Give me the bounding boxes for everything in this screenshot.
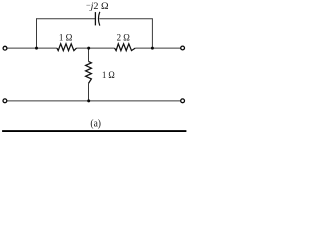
svg-text:1 Ω: 1 Ω: [102, 70, 115, 80]
svg-text:(a): (a): [90, 119, 101, 130]
svg-text:−j2 Ω: −j2 Ω: [86, 0, 109, 11]
svg-text:1 Ω: 1 Ω: [59, 33, 73, 43]
svg-text:2 Ω: 2 Ω: [117, 33, 130, 43]
